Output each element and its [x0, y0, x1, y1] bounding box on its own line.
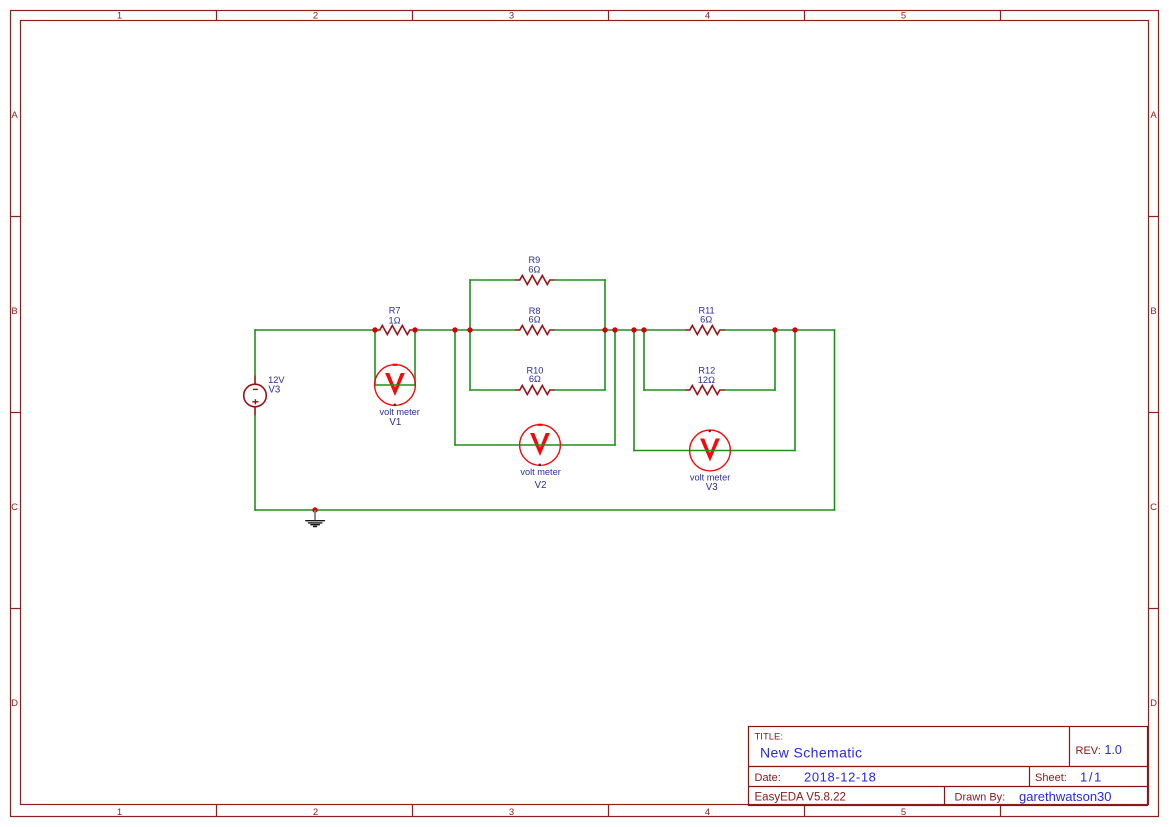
resistor R10 [515, 386, 555, 395]
svg-text:B: B [1150, 306, 1156, 317]
wire: R9 branch left [470, 279, 515, 281]
junction at R7 pin 1 / V1 left [372, 327, 377, 332]
frame column labels top [117, 11, 906, 22]
svg-text:6Ω: 6Ω [528, 265, 540, 275]
svg-text:V2: V2 [535, 480, 547, 491]
wire: R12 branch left [644, 389, 685, 391]
svg-text:5: 5 [901, 807, 906, 818]
wire: V1 right drop [414, 330, 416, 385]
svg-text:5: 5 [901, 11, 906, 22]
svg-text:D: D [11, 698, 18, 709]
junction at parallel block R11/R12 right [772, 327, 777, 332]
wire: V2 left drop [454, 330, 456, 445]
svg-text:2: 2 [313, 807, 318, 818]
svg-text:12Ω: 12Ω [698, 375, 715, 385]
junction at parallel block R8/R9/R10 right [602, 327, 607, 332]
svg-text:12V: 12V [268, 375, 285, 385]
svg-text:REV:: REV: [1076, 745, 1101, 757]
svg-text:B: B [11, 306, 17, 317]
wire: bottom bus [255, 509, 835, 511]
wire: top bus left [255, 329, 375, 331]
wire: V2 right drop [614, 330, 616, 445]
volt meter V2 pin dot [538, 464, 541, 467]
wire: V3 right drop [794, 330, 796, 451]
frame column labels bottom [117, 807, 906, 818]
wire: V2 across [455, 444, 615, 446]
junction at V3 left tap [631, 327, 636, 332]
junction at R7 pin 2 / V1 right [412, 327, 417, 332]
svg-text:4: 4 [705, 807, 710, 818]
svg-text:4: 4 [705, 11, 710, 22]
volt meter V1 circle [375, 365, 416, 406]
svg-text:C: C [1150, 502, 1157, 513]
wire: R10 branch right [555, 389, 605, 391]
wire: R12 branch right [725, 389, 775, 391]
wire: bus R8 to R11 [555, 329, 685, 331]
svg-text:D: D [1150, 698, 1157, 709]
wire: V3 across [634, 450, 795, 452]
svg-text:1: 1 [117, 11, 122, 22]
top ticks [216, 11, 218, 21]
wire: parallel block 1 left vertical [469, 280, 471, 390]
svg-text:6Ω: 6Ω [529, 374, 541, 384]
junction at V2 left tap [452, 327, 457, 332]
volt meter V1 pin dot [394, 404, 397, 407]
left ticks [11, 216, 21, 218]
junction at ground tap [312, 507, 317, 512]
labels [268, 255, 730, 493]
volt meter V3 pin dot [708, 430, 711, 433]
svg-text:New Schematic: New Schematic [760, 745, 862, 761]
svg-text:volt meter: volt meter [520, 467, 560, 477]
svg-text:C: C [11, 502, 18, 513]
right ticks [1149, 216, 1159, 218]
svg-text:1: 1 [117, 807, 122, 818]
volt meter V1 letter [385, 373, 405, 396]
svg-text:R7: R7 [389, 306, 401, 316]
svg-text:1.0: 1.0 [1105, 743, 1122, 757]
voltage source V3 (12V) body [244, 376, 267, 416]
wire: V3 left drop [633, 330, 635, 451]
resistor R7 [375, 326, 415, 335]
volt meter V1 top pin stub [393, 364, 398, 366]
wire: parallel block 1 right vertical [604, 280, 606, 390]
volt meter V2 circle [520, 425, 561, 466]
wire: parallel block 2 right vertical [774, 330, 776, 390]
volt meter V2 top pin stub [538, 424, 543, 426]
svg-text:TITLE:: TITLE: [755, 732, 784, 743]
wires [255, 280, 835, 510]
resistor R9 [515, 276, 555, 285]
svg-text:3: 3 [509, 807, 514, 818]
ground stem [314, 510, 316, 520]
ground bars [306, 521, 325, 527]
svg-text:6Ω: 6Ω [700, 314, 712, 324]
svg-text:Date:: Date: [755, 772, 781, 784]
resistor R12 [685, 386, 725, 395]
svg-text:6Ω: 6Ω [529, 314, 541, 324]
ground [306, 510, 325, 527]
voltage source V3 pin 1 (top, -) [254, 376, 256, 385]
wire: parallel block 2 left vertical [643, 330, 645, 390]
svg-text:1Ω: 1Ω [389, 315, 401, 325]
svg-text:EasyEDA V5.8.22: EasyEDA V5.8.22 [755, 792, 846, 804]
wire: source bottom to ground bus [254, 416, 256, 511]
svg-text:3: 3 [509, 11, 514, 22]
bottom ticks [216, 805, 218, 817]
svg-text:V1: V1 [389, 417, 401, 428]
wire: bus R7 to R8 [415, 329, 515, 331]
wire: V1 across [375, 384, 415, 386]
volt meter V2 letter [530, 433, 550, 456]
wire: V1 left drop [374, 330, 376, 385]
svg-text:A: A [11, 110, 18, 121]
wire: bus R11 to right [725, 329, 835, 331]
wire: right vertical [834, 330, 836, 510]
junction at parallel block R11/R12 left [641, 327, 646, 332]
svg-text:Sheet:: Sheet: [1035, 772, 1067, 784]
wire: R9 branch right [555, 279, 605, 281]
junction at V2 right tap [612, 327, 617, 332]
junction at V3 right tap [792, 327, 797, 332]
title block [749, 727, 1148, 806]
volt meter V3 letter [700, 439, 720, 462]
svg-text:garethwatson30: garethwatson30 [1019, 789, 1112, 804]
svg-text:2018-12-18: 2018-12-18 [804, 769, 877, 784]
svg-text:V3: V3 [268, 384, 280, 395]
voltage source V3 pin 2 (bottom, +) [254, 407, 256, 416]
wire: R10 branch left [470, 389, 515, 391]
frame row labels right [1150, 110, 1157, 709]
svg-text:1/1: 1/1 [1080, 769, 1103, 784]
voltage source V3 minus mark [253, 388, 258, 390]
frame row labels left [11, 110, 18, 709]
svg-text:Drawn By:: Drawn By: [955, 792, 1006, 804]
svg-text:2: 2 [313, 11, 318, 22]
volt meter V3 circle [690, 430, 731, 471]
wire: source top to main bus [254, 330, 256, 376]
svg-text:R9: R9 [529, 255, 541, 265]
voltage source V3 circle [244, 384, 267, 407]
resistor R11 [685, 326, 725, 335]
svg-text:volt meter: volt meter [380, 407, 420, 417]
junction at parallel block R8/R9/R10 left [467, 327, 472, 332]
svg-text:V3: V3 [706, 482, 718, 493]
svg-text:A: A [1150, 110, 1157, 121]
resistor R8 [515, 326, 555, 335]
voltage source V3 plus mark [252, 401, 258, 403]
